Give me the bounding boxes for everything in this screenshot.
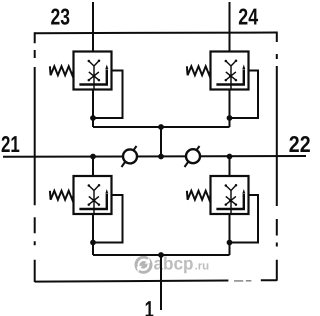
main line 21-22 xyxy=(3,155,306,158)
valve drain channel with up arrow xyxy=(216,194,243,209)
valve V2 internal arrows xyxy=(225,60,238,90)
spring of valve V1 xyxy=(50,66,74,75)
watermark logo circle xyxy=(135,256,153,274)
enclosure border top xyxy=(35,32,277,35)
valve V4 outlet wire xyxy=(229,214,231,255)
relief valve V4 box (lower right) xyxy=(211,176,249,214)
relief valve V3 box (lower left) xyxy=(74,176,112,214)
valve drain channel with up arrow xyxy=(79,70,106,85)
valve V3 inlet riser wire xyxy=(92,157,94,177)
svg-text:23: 23 xyxy=(51,3,71,29)
relief valve V1 box (port 23) xyxy=(74,52,112,90)
enclosure border left (dash-dot) xyxy=(34,32,36,282)
valve drain channel with up arrow xyxy=(79,194,106,209)
junction dot center node xyxy=(158,154,164,160)
junction dot V4 pilot xyxy=(227,240,233,246)
valve V2 pilot line xyxy=(230,71,259,119)
valve V4 inlet riser wire xyxy=(229,157,231,177)
svg-text:24: 24 xyxy=(238,4,258,30)
junction dot upper collector tee xyxy=(158,124,164,130)
svg-text:1: 1 xyxy=(145,296,154,316)
junction dot port 1 tee xyxy=(158,252,164,258)
enclosure border right (dash-dot) xyxy=(276,32,278,281)
lower collector wire xyxy=(93,254,230,256)
junction dot V1 pilot xyxy=(90,115,96,121)
junction dot node 22 branch xyxy=(227,154,233,160)
valve V1 pilot line xyxy=(93,71,123,119)
center column wire xyxy=(160,127,162,157)
svg-text:22: 22 xyxy=(289,131,311,157)
valve V1 outlet wire xyxy=(92,90,94,128)
port 23 riser wire xyxy=(92,2,94,52)
spring of valve V3 xyxy=(50,191,74,200)
throttle D2 xyxy=(185,146,200,167)
throttle D1 xyxy=(122,146,137,167)
spring of valve V4 xyxy=(187,191,211,200)
valve V1 internal arrows xyxy=(88,60,101,90)
port 24 riser wire xyxy=(229,2,231,52)
enclosure border bottom faint dashes xyxy=(234,280,251,282)
valve V4 internal arrows xyxy=(225,184,238,214)
spring of valve V2 xyxy=(187,66,211,75)
relief valve V2 box (port 24) xyxy=(211,52,249,90)
svg-text:.ru: .ru xyxy=(195,261,210,273)
junction dot node 21 branch xyxy=(90,154,96,160)
valve V3 pilot line xyxy=(93,195,123,243)
valve V3 outlet wire xyxy=(92,214,94,255)
upper collector wire xyxy=(93,126,230,128)
valve V4 pilot line xyxy=(230,195,259,243)
valve V3 internal arrows xyxy=(88,184,101,214)
valve V2 outlet wire xyxy=(229,90,231,128)
valve drain channel with up arrow xyxy=(216,70,243,85)
svg-text:21: 21 xyxy=(1,131,20,157)
junction dot V2 pilot xyxy=(227,115,233,121)
junction dot V3 pilot xyxy=(90,240,96,246)
port 1 riser wire xyxy=(160,255,162,310)
enclosure border bottom xyxy=(35,280,277,281)
